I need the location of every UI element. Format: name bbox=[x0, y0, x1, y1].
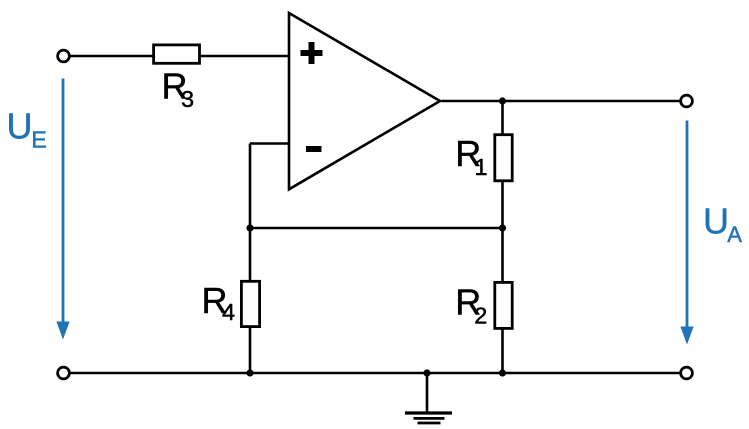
svg-text:4: 4 bbox=[222, 299, 235, 325]
svg-text:A: A bbox=[727, 222, 742, 247]
svg-text:U: U bbox=[7, 106, 33, 147]
svg-text:1: 1 bbox=[475, 154, 488, 180]
svg-text:U: U bbox=[703, 201, 729, 242]
svg-text:E: E bbox=[31, 127, 47, 153]
svg-text:3: 3 bbox=[181, 86, 194, 112]
svg-text:2: 2 bbox=[474, 302, 487, 328]
